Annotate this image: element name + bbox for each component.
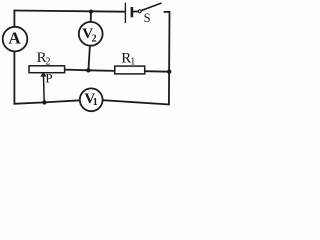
switch S pivot	[138, 10, 141, 13]
wire V2 top drop	[90, 11, 92, 23]
wire V2 bottom drop	[88, 46, 90, 71]
wire node to R1	[88, 69, 114, 72]
resistor R1 body	[115, 66, 145, 74]
wire right vertical	[164, 12, 170, 105]
svg-text:2: 2	[92, 33, 97, 44]
wire left vertical upper	[13, 10, 15, 28]
rheostat R2 body	[29, 66, 65, 73]
battery long plate	[124, 3, 126, 23]
wire battery to switch	[133, 10, 138, 12]
battery short plate	[131, 7, 134, 17]
svg-text:2: 2	[45, 56, 50, 67]
svg-text:1: 1	[93, 97, 98, 108]
svg-text:A: A	[8, 28, 21, 47]
node right (R1 tap)	[167, 70, 171, 74]
wire R1 to right	[145, 70, 170, 73]
voltmeter V2 circle	[79, 22, 103, 46]
wire top horizontal	[14, 11, 126, 12]
wire bottom left	[14, 100, 81, 104]
svg-text:1: 1	[130, 57, 135, 68]
switch S lever	[141, 3, 161, 11]
svg-text:P: P	[45, 70, 52, 85]
ammeter A1 circle	[3, 27, 28, 52]
rheostat R2 slider arrow	[43, 76, 46, 102]
voltmeter V1 circle	[80, 88, 103, 111]
wire left vertical lower	[13, 51, 15, 104]
node top (V2 tap)	[89, 10, 93, 14]
node mid (R2-R1-V2 junction)	[86, 68, 90, 72]
wire R2 right stub	[65, 69, 89, 72]
node bottom (slider tap)	[42, 100, 46, 104]
wire bottom right	[103, 100, 170, 104]
svg-text:S: S	[144, 11, 151, 25]
